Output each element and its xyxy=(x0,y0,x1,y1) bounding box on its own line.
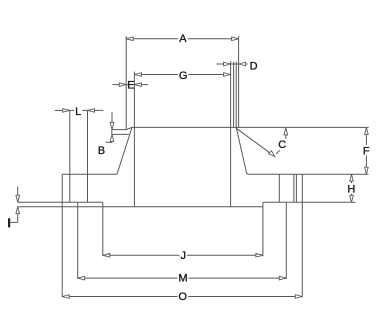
svg-text:A: A xyxy=(179,33,187,45)
svg-text:B: B xyxy=(98,145,105,157)
svg-text:E: E xyxy=(127,80,134,92)
svg-text:L: L xyxy=(75,106,81,118)
svg-text:F: F xyxy=(363,145,370,157)
svg-text:J: J xyxy=(180,250,186,262)
svg-text:M: M xyxy=(178,273,187,285)
svg-text:H: H xyxy=(347,183,355,195)
svg-text:D: D xyxy=(250,60,258,72)
svg-text:O: O xyxy=(178,291,187,303)
svg-text:G: G xyxy=(179,70,188,82)
svg-text:C: C xyxy=(278,139,286,151)
